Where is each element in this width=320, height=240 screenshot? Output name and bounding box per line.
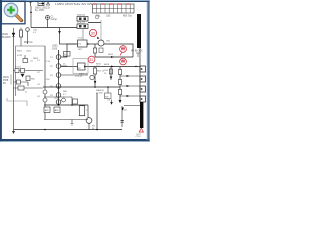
node: grey circled 20 [95, 15, 99, 19]
svg-text:PWB: PWB [3, 80, 9, 82]
annotation: red circle 30 [89, 29, 96, 36]
capacitor C1 with + [46, 16, 50, 28]
resistor column x111 [110, 67, 112, 81]
wire: y105 [44, 104, 88, 106]
box: main enclosure [16, 46, 46, 96]
svg-text:R605 1k: R605 1k [24, 42, 33, 44]
wire: column x58 with circles [58, 50, 60, 105]
svg-text:NOT: NOT [78, 49, 83, 51]
svg-text:0.022: 0.022 [17, 55, 23, 57]
wire: y44 long to right [104, 44, 133, 57]
wire: stubs right of circles [61, 66, 88, 75]
transistor circles on column [56, 55, 61, 105]
svg-text:31: 31 [89, 58, 93, 62]
wire: mid bus x45 [44, 46, 46, 120]
wire: branch down from y27.5 [59, 28, 61, 32]
svg-text:L MPU CPU5 TeFe TeV O/S: L MPU CPU5 TeFe TeV O/S [55, 2, 92, 6]
box right of bottom cluster [79, 106, 84, 116]
wire: vertical x95 upper [94, 44, 96, 57]
wire: y66.5 [61, 66, 76, 68]
wire: vertical x95 lower [94, 67, 96, 88]
wire: rungs to comb [120, 76, 140, 96]
svg-text:BOARD: BOARD [2, 36, 11, 39]
annotation: red circle A [120, 46, 127, 56]
wire: small corner top of left-bottom [7, 98, 27, 106]
svg-text:TCX 02: TCX 02 [75, 76, 83, 78]
wire: corner into bar2 [122, 106, 140, 128]
bar: thick black bar right bottom [140, 102, 143, 128]
transistor Q602 [98, 40, 104, 46]
svg-text:Comp: Comp [51, 18, 58, 21]
connector comb tabs at right edge [140, 66, 146, 102]
icon: magnifier box [1, 1, 25, 23]
node top-left marks [29, 2, 32, 6]
annotation: red circle 31 [88, 56, 95, 63]
wire: long horizontal y87 [43, 86, 120, 88]
diode on left bus [12, 33, 15, 37]
wire: left bus x13.5 [13, 28, 15, 131]
wire: y57 [95, 56, 133, 58]
wire: right column x140 [139, 48, 141, 102]
svg-text:1000: 1000 [52, 48, 58, 50]
handle [16, 15, 22, 21]
wire: P1 stub right, up to y44 [61, 44, 76, 57]
plus [7, 6, 15, 14]
svg-text:30: 30 [91, 32, 95, 36]
diode D1 top [35, 2, 51, 13]
svg-text:Ch2: Ch2 [106, 14, 111, 17]
bottom cluster [44, 97, 88, 120]
svg-text:C605: C605 [52, 46, 58, 48]
svg-text:MAIN: MAIN [3, 76, 9, 79]
svg-text:C720: C720 [136, 136, 142, 138]
svg-text:R612: R612 [108, 54, 114, 56]
svg-text:C602: C602 [26, 51, 32, 53]
glass [4, 3, 18, 17]
wire: connector out right [88, 22, 101, 24]
svg-text:MAIN B: MAIN B [96, 89, 104, 92]
annotation: red warning triangle [139, 128, 143, 132]
diode x93 [94, 81, 97, 84]
wire: bottom long y129 [14, 129, 123, 131]
wire: x108 down + box [107, 87, 109, 93]
wire: x45 bus circles [43, 90, 47, 94]
wire: x120 column [119, 67, 121, 101]
svg-text:R1 R2: R1 R2 [15, 67, 22, 69]
resistor R605 [20, 28, 22, 47]
capacitor C60 [26, 28, 30, 32]
resistor near x93 [93, 68, 96, 74]
svg-text:TCX: TCX [78, 38, 83, 40]
wire: main horizontal y27.5 [31, 27, 77, 29]
power drop x59.5 [60, 31, 77, 45]
wire: x97 down [96, 93, 98, 129]
capacitor on x122 [121, 121, 124, 123]
bar: thick black bar right top [137, 14, 141, 48]
resistor box right of P1 [64, 52, 71, 57]
table: pin table top right [93, 4, 135, 17]
svg-text:SW: SW [105, 96, 108, 98]
svg-text:R601: R601 [17, 51, 23, 53]
border frame [0, 0, 150, 2]
node: grey boundary corner [100, 20, 102, 40]
svg-text:M/S Out: M/S Out [123, 14, 132, 17]
resistor boxes on x120 column [118, 70, 121, 75]
svg-text:R61 1k: R61 1k [97, 71, 105, 73]
wire: vertical from D1 down [30, 6, 32, 28]
annotation: red circle B [120, 58, 127, 65]
connector CN1 pair [77, 15, 88, 29]
left cluster resistors [14, 55, 44, 90]
connector block K2 in box [73, 59, 88, 74]
svg-text:B+ 135V: B+ 135V [35, 9, 45, 12]
connector block K1 on y44 [76, 38, 89, 51]
svg-text:R618: R618 [104, 64, 110, 66]
svg-text:MAIN +B: MAIN +B [79, 72, 88, 75]
